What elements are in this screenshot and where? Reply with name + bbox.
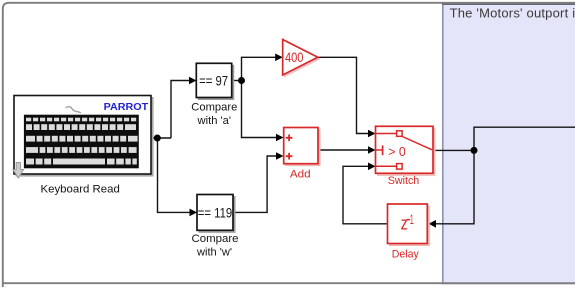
wire: branch down to Compare with 'w' xyxy=(158,138,191,212)
keyboard body xyxy=(24,115,139,169)
arrowhead into Compare with 'a' xyxy=(189,77,197,85)
wire: feedback down to Delay input xyxy=(436,150,474,223)
junction at keyboard output xyxy=(154,135,161,142)
switch selector diagonal xyxy=(402,137,432,150)
wire: Compare 'a' output to junction xyxy=(232,80,242,82)
svg-text:with 'a': with 'a' xyxy=(197,115,232,127)
svg-text:The 'Motors' outport is: The 'Motors' outport is xyxy=(450,5,575,20)
keyboard keys xyxy=(26,118,138,165)
wire: Switch output to right edge xyxy=(433,127,575,150)
junction after Switch xyxy=(471,147,478,154)
svg-text:1: 1 xyxy=(410,212,414,227)
block Switch xyxy=(376,126,436,175)
arrowhead into Gain xyxy=(275,54,283,62)
block Delay xyxy=(388,204,430,246)
wire: branch up to Compare with 'a' xyxy=(171,81,190,139)
svg-text:400: 400 xyxy=(285,49,304,65)
svg-text:z: z xyxy=(401,213,408,233)
wire: Add output to Switch input 2 xyxy=(318,149,369,151)
block Compare with 'w' (== 119) xyxy=(197,195,235,233)
plus sign input 2 xyxy=(286,153,293,160)
switch input 1 line and port square xyxy=(376,133,397,135)
svg-text:Delay: Delay xyxy=(392,249,419,261)
switch criteria threshold mark xyxy=(376,149,383,151)
wire: Compare 'w' output to Add input 2 xyxy=(233,156,277,212)
keyboard cable squiggle xyxy=(66,107,81,114)
block Add xyxy=(284,128,320,166)
arrowhead into Switch input 3 xyxy=(368,163,376,171)
svg-text:Add: Add xyxy=(290,169,311,181)
annotation box 'Motors outport' xyxy=(442,2,575,283)
arrowhead into Switch input 1 xyxy=(368,130,376,138)
wire: Delay output to Switch input 3 xyxy=(343,166,388,224)
svg-text:== 97: == 97 xyxy=(199,72,228,88)
svg-text:> 0: > 0 xyxy=(388,144,406,159)
wire: up to Gain input xyxy=(242,57,277,80)
svg-text:with 'w': with 'w' xyxy=(196,247,232,259)
arrowhead into Compare with 'w' xyxy=(190,209,198,217)
wire: Gain output to Switch input 1 xyxy=(318,57,369,133)
svg-text:Switch: Switch xyxy=(388,175,420,187)
arrowhead into Add input 1 xyxy=(276,134,284,142)
switch input 3 line and port square xyxy=(376,165,397,167)
wire: keyboard output to branch xyxy=(151,137,171,139)
arrowhead into Delay (pointing left) xyxy=(429,220,437,228)
svg-text:== 119: == 119 xyxy=(198,205,233,221)
wire: down to Add input 1 xyxy=(242,81,278,138)
svg-text:Compare: Compare xyxy=(191,101,237,113)
block Gain 400 xyxy=(283,40,320,77)
svg-text:Keyboard Read: Keyboard Read xyxy=(40,183,119,195)
gray download arrow on keyboard block xyxy=(13,163,24,179)
junction after Compare 'a' xyxy=(238,77,245,84)
arrowhead into Add input 2 xyxy=(276,152,284,160)
block Keyboard Read xyxy=(14,96,153,177)
svg-text:PARROT: PARROT xyxy=(104,102,149,113)
svg-text:Compare: Compare xyxy=(192,233,239,245)
arrowhead into Switch input 2 xyxy=(368,146,376,154)
block Compare with 'a' (== 97) xyxy=(196,63,233,99)
plus sign input 1 xyxy=(286,135,293,142)
